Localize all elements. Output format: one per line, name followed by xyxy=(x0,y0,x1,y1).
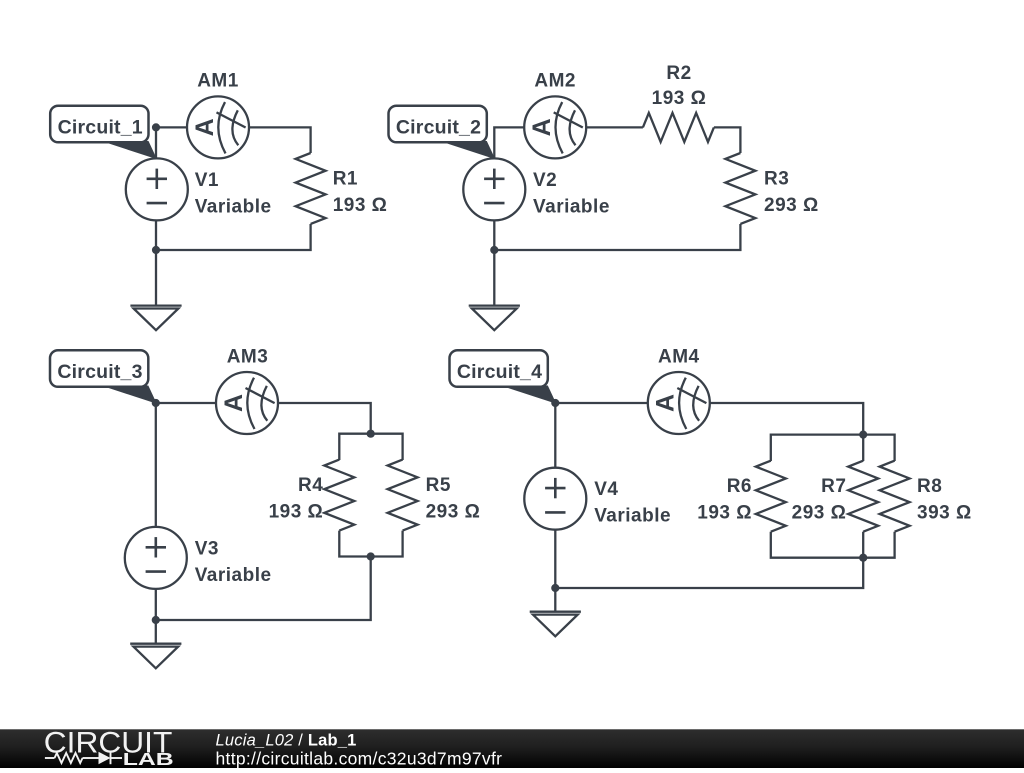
label R2 value xyxy=(652,63,707,109)
logo resistor-diode wire xyxy=(45,752,122,764)
ground 3 xyxy=(130,644,181,669)
wire C3 rail to ground stem xyxy=(155,620,157,644)
node C1 bottom junction xyxy=(152,246,160,254)
svg-text:V4: V4 xyxy=(594,479,618,500)
wire C2 rail to ground stem xyxy=(493,250,495,306)
svg-text:R6: R6 xyxy=(727,476,752,497)
svg-text:Circuit_1: Circuit_1 xyxy=(58,116,143,138)
svg-text:R7: R7 xyxy=(821,476,846,497)
node C4 parallel bottom junction xyxy=(859,554,867,562)
label callout Circuit_2 xyxy=(389,106,496,160)
svg-text:393 Ω: 393 Ω xyxy=(917,503,972,524)
wire C4 R7 bottom stub xyxy=(862,532,864,558)
node C4 rail junction xyxy=(551,584,559,592)
wire C4 node to V4 top xyxy=(554,403,556,468)
wire C2 R2 to R3 top corner xyxy=(714,127,741,153)
svg-text:293 Ω: 293 Ω xyxy=(426,502,481,523)
label R5 value xyxy=(426,475,481,522)
svg-text:R8: R8 xyxy=(917,476,942,497)
svg-text:A: A xyxy=(220,394,248,412)
node C2 bottom junction xyxy=(490,246,498,254)
wire C4 AM4 to parallel top junction xyxy=(710,403,863,435)
wire C4 rail to ground stem xyxy=(554,588,556,612)
logo diode triangle xyxy=(99,752,111,764)
wire C1 AM1 to R1 top corner xyxy=(249,127,311,153)
svg-text:Variable: Variable xyxy=(594,506,671,527)
svg-text:193 Ω: 193 Ω xyxy=(697,503,752,524)
node C3 parallel top junction xyxy=(367,430,375,438)
wire C2 V2 top to AM2 xyxy=(494,127,524,158)
svg-text:V3: V3 xyxy=(195,538,219,559)
node C4 left junction xyxy=(551,399,559,407)
svg-text:Circuit_2: Circuit_2 xyxy=(396,116,481,138)
svg-text:A: A xyxy=(652,394,680,412)
node C3 rail junction xyxy=(152,616,160,624)
resistor R5 xyxy=(388,460,418,531)
svg-text:Variable: Variable xyxy=(195,565,272,586)
svg-text:LAB: LAB xyxy=(123,749,174,768)
ammeter AM1 xyxy=(187,96,249,158)
node C1 top junction xyxy=(152,123,160,131)
wire C4 parallel bottom bar xyxy=(771,532,895,558)
wire C3 bottom junction to rail to V3 bottom xyxy=(156,557,371,621)
svg-text:AM2: AM2 xyxy=(534,70,576,91)
label V2 value xyxy=(533,170,610,218)
svg-text:Lucia_L02 / Lab_1: Lucia_L02 / Lab_1 xyxy=(216,732,357,750)
label callout Circuit_4 xyxy=(450,350,557,404)
svg-text:193 Ω: 193 Ω xyxy=(269,502,324,523)
voltage source V1 xyxy=(126,158,188,220)
label V3 value xyxy=(195,538,272,586)
label R8 value xyxy=(917,476,972,524)
svg-text:R3: R3 xyxy=(764,169,789,190)
label R6 value xyxy=(697,476,752,524)
resistor R2 xyxy=(643,113,714,142)
svg-text:Circuit_4: Circuit_4 xyxy=(457,361,542,383)
svg-text:R5: R5 xyxy=(426,475,451,496)
resistor R6 xyxy=(756,461,786,532)
label callout Circuit_1 xyxy=(50,106,157,160)
svg-text:193 Ω: 193 Ω xyxy=(652,88,707,109)
resistor R4 xyxy=(324,460,354,531)
resistor R8 xyxy=(880,461,910,532)
ammeter AM3 xyxy=(216,372,278,434)
label V4 value xyxy=(594,479,671,527)
wire C2 AM2 to R2 xyxy=(586,126,643,128)
svg-text:R4: R4 xyxy=(298,475,323,496)
node C4 parallel top junction xyxy=(859,431,867,439)
ground 4 xyxy=(530,612,581,637)
svg-text:V2: V2 xyxy=(533,170,557,191)
resistor R1 xyxy=(296,153,326,224)
ground 1 xyxy=(130,306,181,331)
svg-text:V1: V1 xyxy=(195,170,219,191)
voltage source V3 xyxy=(125,527,187,589)
svg-text:Variable: Variable xyxy=(195,196,272,217)
label R7 value xyxy=(792,476,847,524)
svg-text:A: A xyxy=(191,118,219,136)
svg-text:Variable: Variable xyxy=(533,196,610,217)
svg-text:R1: R1 xyxy=(333,169,358,190)
wire C2 R3 bottom to rail to V2 bottom xyxy=(494,220,740,250)
svg-text:A: A xyxy=(528,118,556,136)
resistor R3 xyxy=(725,153,755,224)
wire C4 node to AM4 xyxy=(555,402,647,404)
wire C3 node to V3 top xyxy=(155,403,157,527)
wire C1 node to V1 top and to AM1 xyxy=(156,127,187,158)
wire C1 rail to ground stem xyxy=(155,250,157,306)
wire C4 parallel top bar xyxy=(771,435,895,461)
label R1 value xyxy=(333,169,388,217)
svg-text:193 Ω: 193 Ω xyxy=(333,195,388,216)
svg-text:http://circuitlab.com/c32u3d7m: http://circuitlab.com/c32u3d7m97vfr xyxy=(216,748,503,768)
label V1 value xyxy=(195,170,272,218)
label R3 value xyxy=(764,169,819,217)
wire C3 parallel bottom bar xyxy=(339,531,402,557)
wire C3 AM3 to parallel top junction xyxy=(278,403,371,434)
wire C4 R7 top stub xyxy=(862,435,864,461)
svg-text:R2: R2 xyxy=(666,63,691,84)
svg-text:Circuit_3: Circuit_3 xyxy=(57,361,142,383)
svg-text:AM3: AM3 xyxy=(227,347,269,368)
ammeter AM2 xyxy=(524,96,586,158)
wire C3 parallel top bar xyxy=(339,434,402,460)
footer background bar xyxy=(0,729,1024,768)
svg-text:AM4: AM4 xyxy=(658,347,700,368)
resistor R7 xyxy=(848,461,878,532)
svg-text:293 Ω: 293 Ω xyxy=(792,503,847,524)
ammeter AM4 xyxy=(648,372,710,434)
voltage source V2 xyxy=(463,158,525,220)
ground 2 xyxy=(469,306,520,331)
wire C1 R1 bottom to rail to V1 bottom xyxy=(156,220,311,250)
voltage source V4 xyxy=(524,468,586,530)
svg-text:AM1: AM1 xyxy=(197,70,239,91)
wire C3 node to AM3 xyxy=(156,402,216,404)
label R4 value xyxy=(269,475,324,522)
node C3 left junction xyxy=(152,399,160,407)
svg-text:293 Ω: 293 Ω xyxy=(764,195,819,216)
node C3 parallel bottom junction xyxy=(367,552,375,560)
label callout Circuit_3 xyxy=(50,350,157,404)
wire C4 bottom junction to rail to V4 bottom xyxy=(555,530,863,588)
